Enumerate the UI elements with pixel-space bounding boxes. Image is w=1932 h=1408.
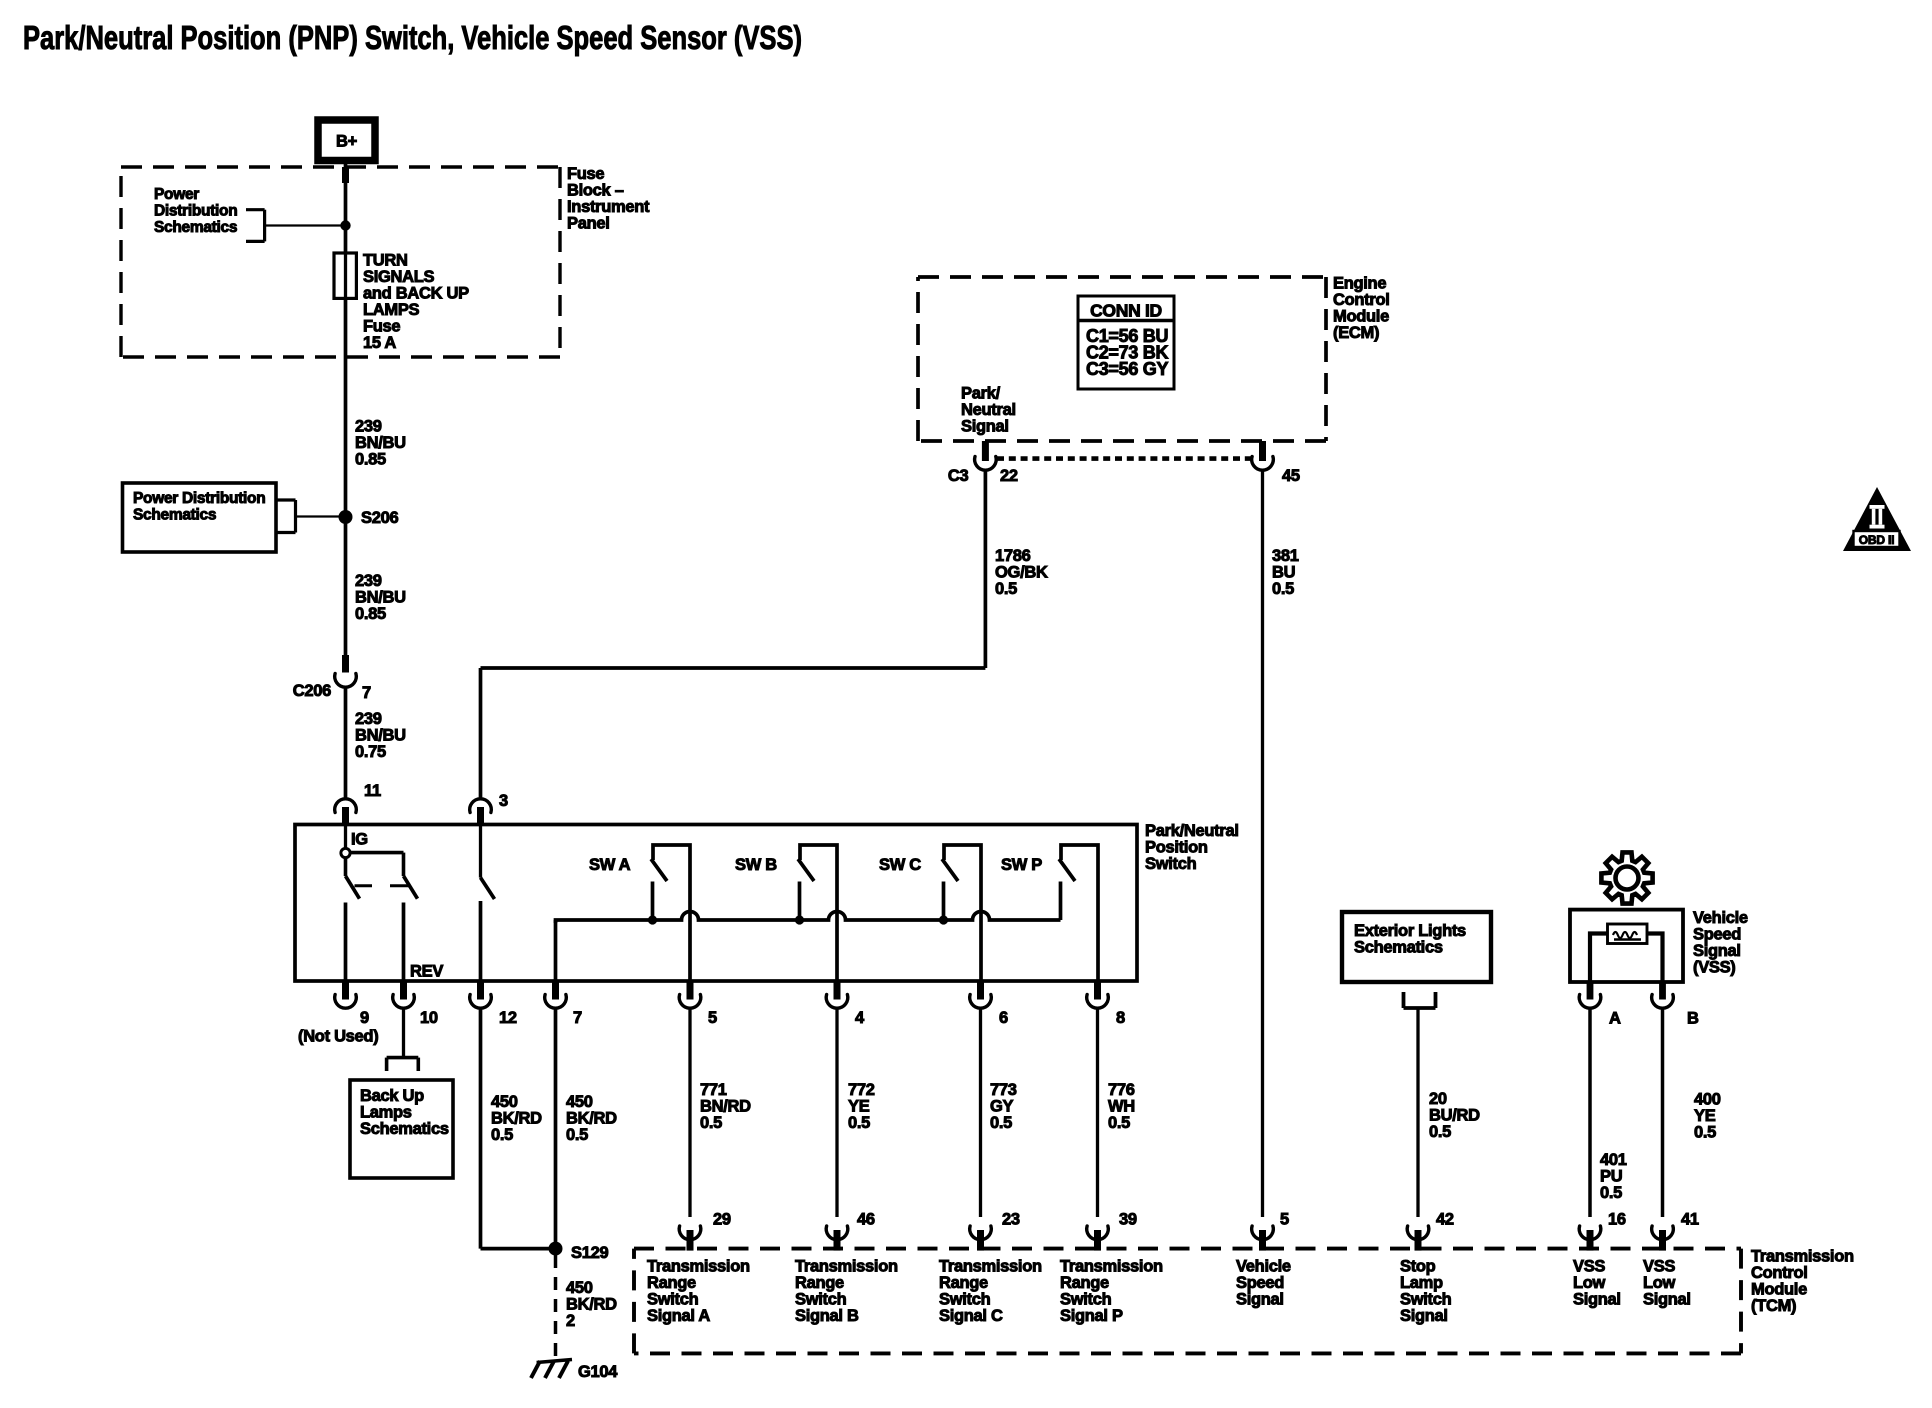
- svg-text:46: 46: [857, 1211, 875, 1229]
- svg-text:0.5: 0.5: [848, 1114, 870, 1132]
- svg-text:Low: Low: [1573, 1274, 1606, 1292]
- svg-text:Position: Position: [1145, 839, 1208, 857]
- svg-text:Switch: Switch: [939, 1290, 991, 1308]
- svg-text:0.5: 0.5: [1272, 580, 1294, 598]
- svg-text:Switch: Switch: [1400, 1290, 1452, 1308]
- svg-text:239: 239: [355, 710, 382, 728]
- svg-text:Range: Range: [795, 1274, 844, 1292]
- svg-text:239: 239: [355, 572, 382, 590]
- svg-text:Exterior Lights: Exterior Lights: [1354, 922, 1466, 940]
- svg-text:Engine: Engine: [1333, 274, 1386, 292]
- svg-text:Lamps: Lamps: [360, 1103, 412, 1121]
- svg-text:Signal: Signal: [1693, 942, 1741, 960]
- svg-text:Instrument: Instrument: [567, 198, 650, 216]
- svg-text:22: 22: [1000, 467, 1018, 485]
- svg-text:Park/Neutral Position (PNP) Sw: Park/Neutral Position (PNP) Switch, Vehi…: [23, 19, 802, 56]
- svg-text:23: 23: [1002, 1211, 1020, 1229]
- svg-text:41: 41: [1681, 1211, 1699, 1229]
- svg-text:381: 381: [1272, 547, 1299, 565]
- svg-text:and BACK UP: and BACK UP: [363, 284, 469, 302]
- svg-text:450: 450: [566, 1093, 593, 1111]
- svg-text:239: 239: [355, 418, 382, 436]
- svg-text:BN/RD: BN/RD: [700, 1097, 751, 1115]
- svg-text:BN/BU: BN/BU: [355, 434, 406, 452]
- svg-text:WH: WH: [1108, 1097, 1135, 1115]
- svg-text:BK/RD: BK/RD: [566, 1295, 617, 1313]
- svg-text:Schematics: Schematics: [133, 506, 216, 523]
- svg-text:SW P: SW P: [1001, 856, 1042, 874]
- svg-text:Speed: Speed: [1236, 1274, 1284, 1292]
- svg-text:REV: REV: [410, 963, 443, 981]
- svg-text:45: 45: [1282, 467, 1300, 485]
- svg-text:TURN: TURN: [363, 251, 408, 269]
- svg-text:773: 773: [990, 1081, 1017, 1099]
- svg-text:Fuse: Fuse: [567, 165, 604, 183]
- svg-text:9: 9: [360, 1009, 369, 1027]
- svg-text:(VSS): (VSS): [1693, 959, 1736, 977]
- svg-text:Switch: Switch: [647, 1290, 699, 1308]
- svg-text:Neutral: Neutral: [961, 401, 1016, 419]
- svg-text:SW C: SW C: [879, 856, 921, 874]
- svg-text:C3: C3: [948, 467, 969, 485]
- svg-text:BK/RD: BK/RD: [491, 1109, 542, 1127]
- svg-text:Switch: Switch: [1145, 855, 1197, 873]
- svg-text:Signal: Signal: [1643, 1290, 1691, 1308]
- svg-text:Distribution: Distribution: [154, 202, 237, 219]
- svg-text:Switch: Switch: [1060, 1290, 1112, 1308]
- svg-text:Schematics: Schematics: [360, 1120, 449, 1138]
- svg-text:Signal B: Signal B: [795, 1307, 859, 1325]
- svg-text:4: 4: [855, 1009, 865, 1027]
- svg-text:Module: Module: [1751, 1280, 1807, 1298]
- svg-text:Transmission: Transmission: [1060, 1257, 1163, 1275]
- svg-text:450: 450: [491, 1093, 518, 1111]
- svg-text:Park/: Park/: [961, 384, 1001, 402]
- svg-text:0.5: 0.5: [491, 1126, 513, 1144]
- svg-text:Low: Low: [1643, 1274, 1676, 1292]
- svg-text:Signal: Signal: [961, 417, 1009, 435]
- svg-text:Power Distribution: Power Distribution: [133, 490, 265, 507]
- svg-text:Module: Module: [1333, 307, 1389, 325]
- svg-text:0.5: 0.5: [1600, 1184, 1622, 1202]
- svg-text:0.5: 0.5: [1108, 1114, 1130, 1132]
- svg-text:776: 776: [1108, 1081, 1135, 1099]
- svg-text:LAMPS: LAMPS: [363, 301, 420, 319]
- svg-text:5: 5: [1280, 1211, 1289, 1229]
- svg-text:Signal: Signal: [1573, 1290, 1621, 1308]
- svg-text:0.5: 0.5: [1429, 1123, 1451, 1141]
- svg-text:5: 5: [708, 1009, 717, 1027]
- svg-text:BN/BU: BN/BU: [355, 588, 406, 606]
- svg-text:Control: Control: [1333, 291, 1390, 309]
- svg-text:771: 771: [700, 1081, 727, 1099]
- svg-text:Fuse: Fuse: [363, 317, 400, 335]
- svg-text:15 A: 15 A: [363, 334, 396, 352]
- svg-text:C206: C206: [293, 682, 331, 700]
- svg-text:BK/RD: BK/RD: [566, 1109, 617, 1127]
- svg-text:Panel: Panel: [567, 214, 610, 232]
- svg-text:11: 11: [364, 782, 381, 800]
- svg-text:16: 16: [1608, 1211, 1626, 1229]
- svg-text:C3=56 GY: C3=56 GY: [1086, 359, 1168, 379]
- svg-text:Transmission: Transmission: [939, 1257, 1042, 1275]
- svg-text:Park/Neutral: Park/Neutral: [1145, 822, 1239, 840]
- svg-text:1786: 1786: [995, 547, 1031, 565]
- svg-text:7: 7: [573, 1009, 582, 1027]
- svg-text:Transmission: Transmission: [795, 1257, 898, 1275]
- svg-text:IG: IG: [351, 831, 368, 849]
- svg-text:Signal: Signal: [1236, 1290, 1284, 1308]
- svg-text:Transmission: Transmission: [1751, 1247, 1854, 1265]
- svg-text:Schematics: Schematics: [154, 219, 237, 236]
- svg-text:VSS: VSS: [1573, 1257, 1605, 1275]
- svg-text:Range: Range: [939, 1274, 988, 1292]
- svg-text:Switch: Switch: [795, 1290, 847, 1308]
- svg-text:Transmission: Transmission: [647, 1257, 750, 1275]
- svg-text:OBD II: OBD II: [1859, 533, 1894, 547]
- svg-text:8: 8: [1116, 1009, 1125, 1027]
- svg-text:SW A: SW A: [589, 856, 631, 874]
- svg-text:Signal C: Signal C: [939, 1307, 1003, 1325]
- svg-text:Signal A: Signal A: [647, 1307, 710, 1325]
- svg-text:0.85: 0.85: [355, 605, 386, 623]
- svg-text:6: 6: [999, 1009, 1008, 1027]
- svg-text:400: 400: [1694, 1090, 1721, 1108]
- svg-text:YE: YE: [848, 1097, 870, 1115]
- svg-text:Schematics: Schematics: [1354, 938, 1443, 956]
- svg-text:S129: S129: [571, 1244, 608, 1262]
- svg-text:CONN ID: CONN ID: [1090, 301, 1162, 321]
- svg-text:Signal P: Signal P: [1060, 1307, 1123, 1325]
- svg-text:0.5: 0.5: [700, 1114, 722, 1132]
- svg-text:YE: YE: [1694, 1107, 1716, 1125]
- svg-text:20: 20: [1429, 1090, 1447, 1108]
- svg-text:0.75: 0.75: [355, 743, 386, 761]
- svg-text:Range: Range: [647, 1274, 696, 1292]
- svg-text:VSS: VSS: [1643, 1257, 1675, 1275]
- svg-text:Stop: Stop: [1400, 1257, 1436, 1275]
- svg-text:Vehicle: Vehicle: [1236, 1257, 1291, 1275]
- svg-text:Power: Power: [154, 186, 199, 203]
- svg-text:B: B: [1687, 1010, 1699, 1028]
- svg-text:Vehicle: Vehicle: [1693, 909, 1748, 927]
- svg-text:0.5: 0.5: [566, 1126, 588, 1144]
- svg-text:B+: B+: [336, 133, 357, 151]
- svg-text:0.85: 0.85: [355, 451, 386, 469]
- svg-text:BU/RD: BU/RD: [1429, 1106, 1480, 1124]
- svg-text:2: 2: [566, 1312, 575, 1330]
- svg-text:0.5: 0.5: [1694, 1123, 1716, 1141]
- svg-text:772: 772: [848, 1081, 875, 1099]
- svg-text:42: 42: [1436, 1211, 1454, 1229]
- svg-text:PU: PU: [1600, 1168, 1622, 1186]
- svg-text:12: 12: [499, 1009, 517, 1027]
- svg-text:3: 3: [499, 792, 508, 810]
- svg-text:GY: GY: [990, 1097, 1014, 1115]
- svg-text:450: 450: [566, 1279, 593, 1297]
- svg-text:Speed: Speed: [1693, 926, 1741, 944]
- svg-text:OG/BK: OG/BK: [995, 564, 1048, 582]
- svg-text:Back Up: Back Up: [360, 1087, 424, 1105]
- svg-text:401: 401: [1600, 1151, 1627, 1169]
- svg-text:A: A: [1609, 1010, 1621, 1028]
- svg-text:10: 10: [420, 1009, 438, 1027]
- svg-text:29: 29: [713, 1211, 731, 1229]
- svg-text:0.5: 0.5: [995, 580, 1017, 598]
- svg-text:G104: G104: [578, 1363, 618, 1381]
- svg-text:Lamp: Lamp: [1400, 1274, 1443, 1292]
- svg-text:SIGNALS: SIGNALS: [363, 268, 435, 286]
- svg-text:(Not Used): (Not Used): [298, 1028, 378, 1046]
- svg-text:39: 39: [1119, 1211, 1137, 1229]
- svg-text:Signal: Signal: [1400, 1307, 1448, 1325]
- svg-text:Control: Control: [1751, 1264, 1808, 1282]
- svg-text:Block –: Block –: [567, 181, 624, 199]
- svg-text:7: 7: [362, 684, 371, 702]
- svg-text:(ECM): (ECM): [1333, 324, 1379, 342]
- svg-text:SW B: SW B: [735, 856, 777, 874]
- svg-text:(TCM): (TCM): [1751, 1297, 1796, 1315]
- svg-text:Range: Range: [1060, 1274, 1109, 1292]
- svg-text:BN/BU: BN/BU: [355, 726, 406, 744]
- svg-text:BU: BU: [1272, 564, 1295, 582]
- svg-text:0.5: 0.5: [990, 1114, 1012, 1132]
- svg-text:S206: S206: [361, 509, 398, 527]
